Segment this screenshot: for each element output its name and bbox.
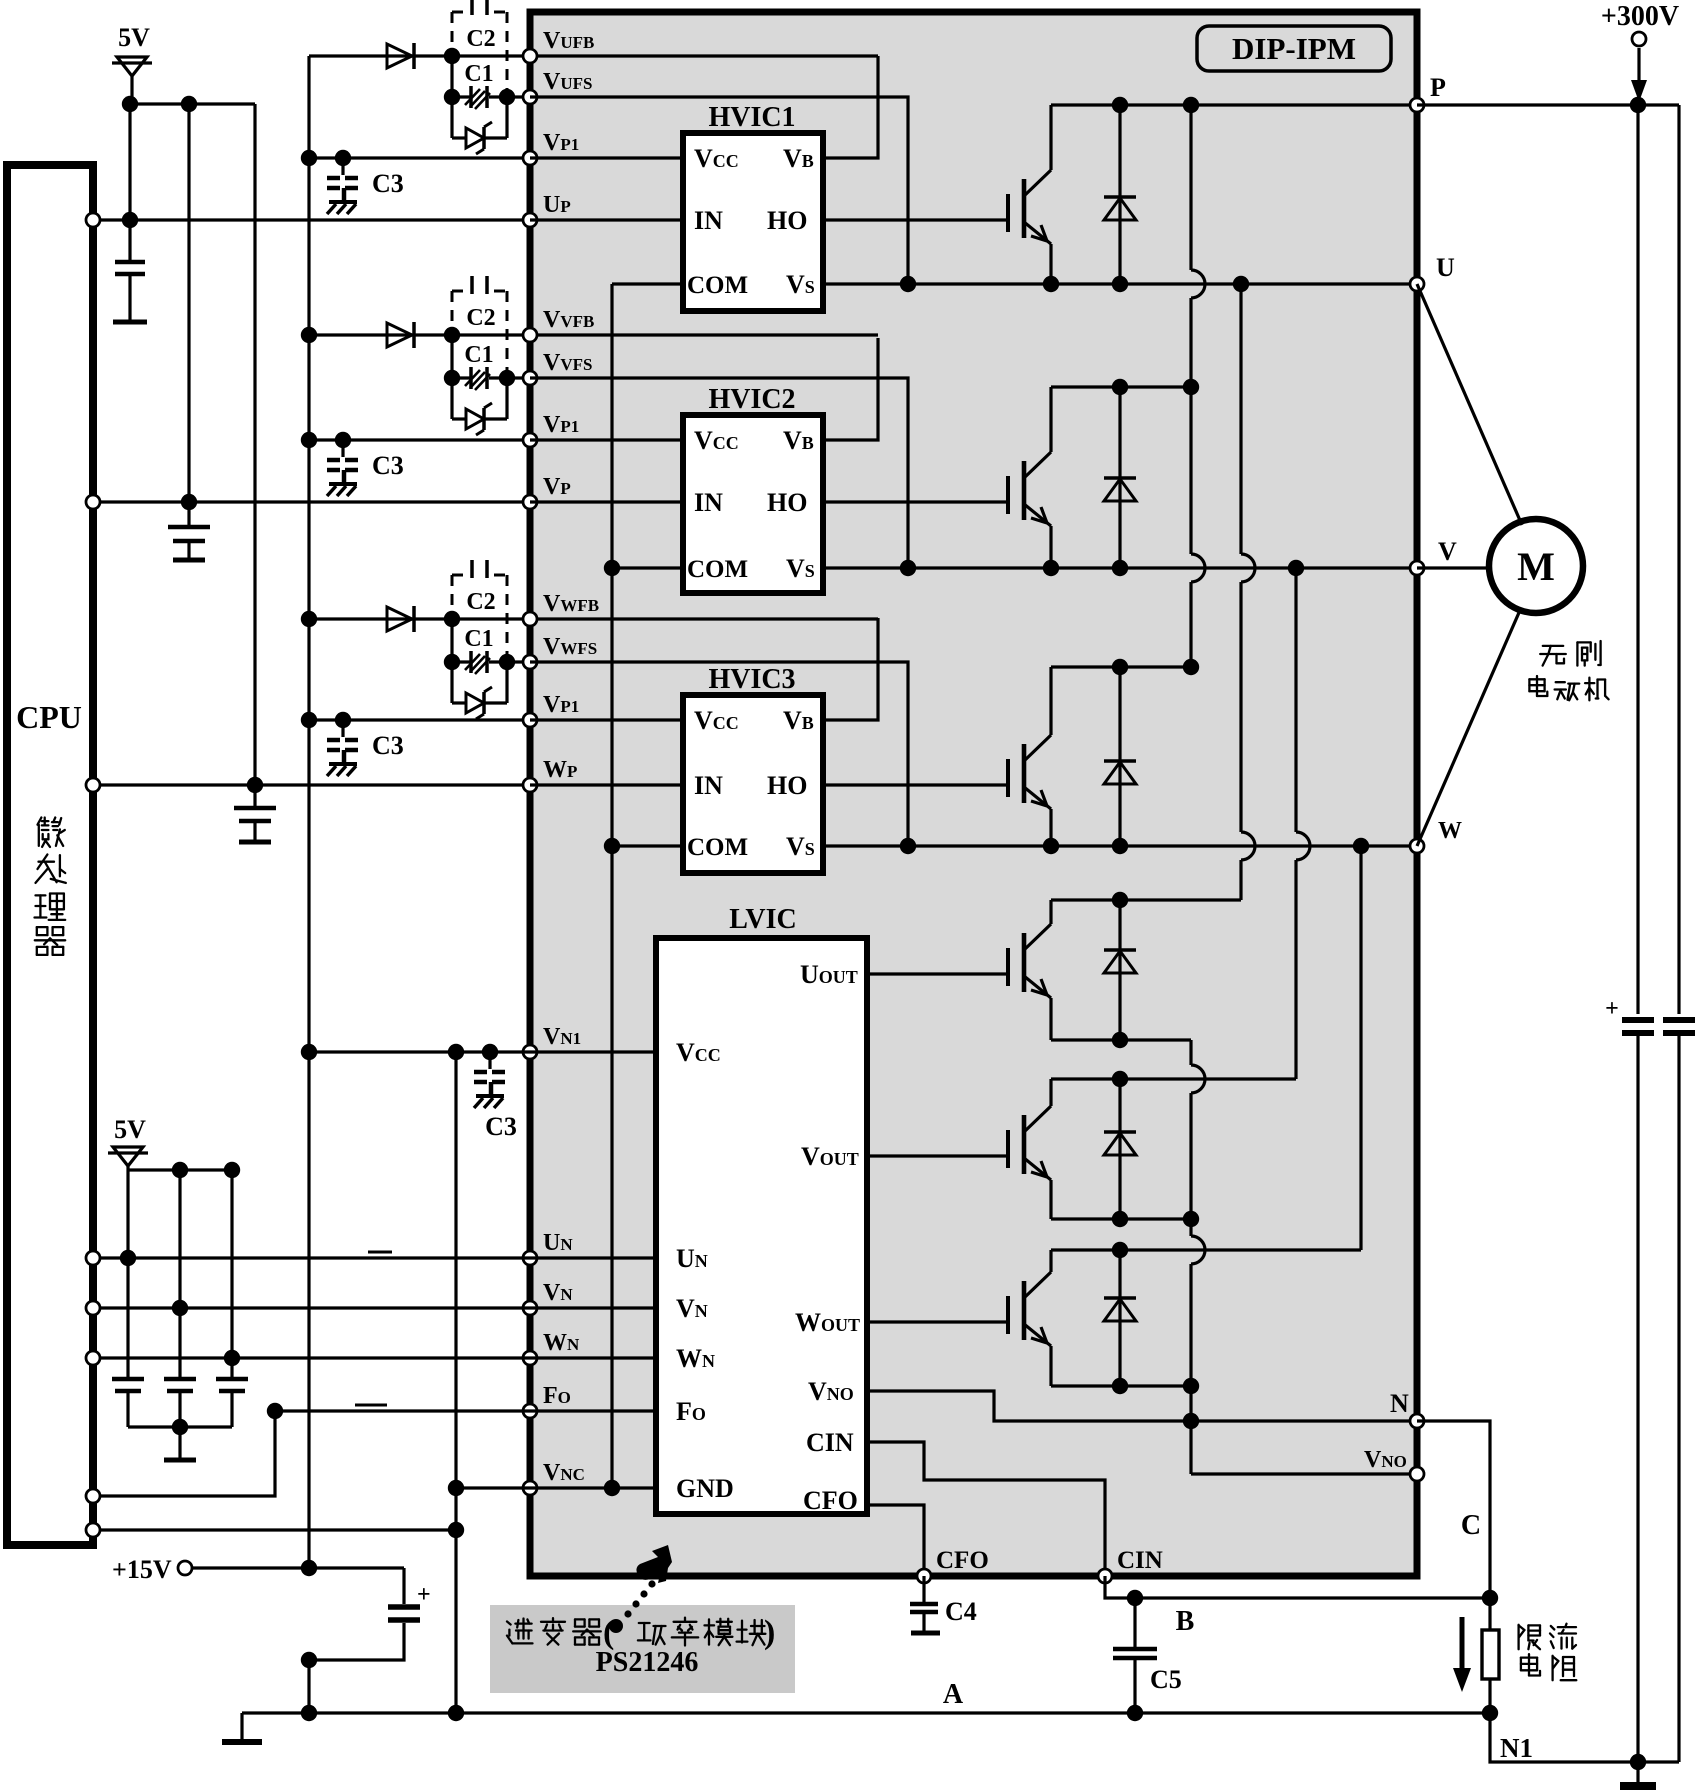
capacitor on WP line to ground [253, 785, 256, 808]
wire WN line [93, 1356, 656, 1359]
module pin N [1410, 1414, 1424, 1428]
svg-text:C5: C5 [1150, 1665, 1182, 1694]
wire x128 to UN [126, 1170, 129, 1379]
wire UOUT to Q4 gate [867, 972, 1008, 975]
wire V low collector rail [1051, 1077, 1296, 1080]
wire COM of HVIC2 [612, 566, 683, 569]
svg-text:DIP-IPM: DIP-IPM [1232, 31, 1356, 66]
capacitor C3 to ground (phase U) [341, 158, 344, 175]
wire VP CPU to module [93, 500, 530, 503]
svg-text:COM: COM [687, 272, 748, 299]
svg-text:N: N [1390, 1389, 1409, 1418]
wire W riser to W low collector [1359, 846, 1362, 1250]
wire N1 bottom link [1490, 1713, 1679, 1762]
CPU pin VP [86, 495, 100, 509]
module pin P [1410, 98, 1424, 112]
module pin UN [523, 1251, 537, 1265]
svg-text:GND: GND [676, 1474, 734, 1503]
junction dot [301, 327, 317, 343]
wire 5V#2 rail [128, 1168, 232, 1171]
wire A ground line [242, 1711, 1490, 1714]
ground (filter caps) [178, 1427, 181, 1460]
wire VVFS to module pin [507, 376, 530, 379]
junction dot [1112, 1211, 1128, 1227]
wire U low collector rail [1051, 898, 1241, 901]
junction dot [444, 89, 460, 105]
junction dot [1183, 659, 1199, 675]
junction dot [444, 370, 460, 386]
label 限流 (current limiting) [1519, 1625, 1540, 1649]
transistor Q2 (V high-side IGBT) [1006, 476, 1010, 514]
junction dot [482, 1044, 498, 1060]
transistor Q5 (V low-side IGBT) [1006, 1130, 1010, 1168]
wire COM of HVIC3 [612, 844, 683, 847]
wire VNO to N row [867, 1391, 1417, 1421]
svg-text:C: C [1461, 1510, 1481, 1541]
capacitor C1 (bootstrap) phase W [452, 660, 470, 663]
wire WOUT to Q6 gate [867, 1320, 1008, 1323]
op-amp/driver U2 HVIC2 box [683, 415, 823, 593]
junction dot [1127, 1590, 1143, 1606]
wire CFO internal route [867, 1505, 924, 1576]
junction dot [1183, 97, 1199, 113]
capacitor input filter [216, 1377, 248, 1382]
svg-text:A: A [943, 1679, 964, 1710]
capacitor C3 to ground (VN1) [488, 1052, 491, 1069]
wire P rail [1051, 103, 1417, 106]
junction dot [1043, 560, 1059, 576]
wire filter cap common [128, 1425, 232, 1428]
svg-text:N1: N1 [1500, 1733, 1533, 1763]
wire COM of HVIC1 [612, 282, 683, 285]
label 电动机 (motor) [1529, 676, 1547, 696]
junction dot [172, 1162, 188, 1178]
junction dot [267, 1403, 283, 1419]
module pin CIN [1098, 1569, 1112, 1583]
capacitor on UP line to ground [128, 220, 131, 262]
wire N to resistor (C branch) [1417, 1421, 1490, 1598]
junction dot [247, 777, 263, 793]
capacitor C4 [922, 1576, 925, 1604]
diode D6 (W low freewheel) [1118, 1250, 1121, 1386]
svg-text:PS21246: PS21246 [596, 1647, 699, 1678]
junction dot [1112, 838, 1128, 854]
wire emitter chain to N/VNO [1189, 1040, 1192, 1065]
CPU pin WN [86, 1351, 100, 1365]
wire B line [1105, 1576, 1490, 1598]
svg-text:HVIC2: HVIC2 [708, 384, 795, 415]
svg-text:C1: C1 [464, 626, 493, 652]
wire VVFB line [309, 333, 878, 336]
junction dot [1183, 379, 1199, 395]
module pin VVFB [523, 328, 537, 342]
junction dot [1353, 838, 1369, 854]
svg-text:COM: COM [687, 834, 748, 861]
wire UN line [93, 1256, 656, 1259]
wire P to +300V and right rail [1417, 103, 1679, 106]
module pin VP1 [523, 713, 537, 727]
module pin VP1 [523, 151, 537, 165]
svg-text:B: B [1176, 1606, 1195, 1637]
junction dot [444, 654, 460, 670]
capacitor C2 (optional, dashed) for phase V [452, 276, 507, 374]
wire VCC into HVIC1 [530, 156, 683, 159]
module pin VN1 [523, 1045, 537, 1059]
wire UP CPU to module [93, 218, 530, 221]
label 无刷 (brushless) [1540, 646, 1566, 666]
junction dot [1288, 560, 1304, 576]
op-amp/driver U1 HVIC1 box [683, 133, 823, 311]
junction dot [335, 150, 351, 166]
label 处 [36, 855, 66, 883]
junction dot [1112, 1071, 1128, 1087]
junction dot [301, 1044, 317, 1060]
svg-text:C2: C2 [466, 305, 495, 331]
arrow current direction [1460, 1617, 1465, 1670]
ground (A line) [240, 1713, 243, 1742]
wire bus x130 5V to UP [128, 104, 131, 220]
junction dot [448, 1705, 464, 1721]
wire IN into HVIC3 [530, 783, 683, 786]
label 电阻 (resistor) [1521, 1654, 1540, 1675]
wire stub (scan mark) [368, 1251, 392, 1254]
junction dot [224, 1350, 240, 1366]
wire VWFS riser to W node [530, 662, 908, 846]
junction dot [1112, 892, 1128, 908]
junction dot [900, 560, 916, 576]
svg-text:HVIC3: HVIC3 [708, 664, 795, 695]
terminal +15V [178, 1561, 192, 1575]
module pin WP [523, 778, 537, 792]
CPU pin VN [86, 1301, 100, 1315]
wire bus x255 5V to WP [253, 104, 256, 785]
module pin VP [523, 495, 537, 509]
svg-text:C3: C3 [372, 451, 404, 480]
CPU pin WP [86, 778, 100, 792]
motor M (brushless) [1489, 519, 1583, 613]
wire HO of HVIC3 to IGBT gate [823, 783, 1008, 786]
junction dot [301, 712, 317, 728]
wire cap return to A [307, 1660, 310, 1713]
junction dot [1112, 1242, 1128, 1258]
wire VN1 to LVIC VCC [309, 1050, 656, 1053]
wire V riser to V low collector [1294, 568, 1297, 832]
transistor Q4 (U low-side IGBT) [1006, 948, 1010, 986]
diode D2 (V high freewheel) [1118, 387, 1121, 568]
wire C1 left leg [450, 56, 453, 97]
junction dot [1112, 560, 1128, 576]
CPU pin UN [86, 1251, 100, 1265]
wire VUP1 line [309, 156, 530, 159]
DIP-IPM title box [1197, 26, 1391, 71]
junction dot [224, 1162, 240, 1178]
junction dot [499, 370, 515, 386]
wire VWFB line [309, 617, 878, 620]
junction dot [499, 654, 515, 670]
module pin VUFS [523, 90, 537, 104]
capacitor input filter [112, 1377, 144, 1382]
module pin WN [523, 1351, 537, 1365]
label 微 (micro) [38, 818, 65, 847]
junction dot [604, 838, 620, 854]
zener diode ZU (protection) [450, 97, 453, 138]
capacitor C1 (bootstrap) phase V [452, 376, 470, 379]
capacitor input filter [164, 1377, 196, 1382]
junction dot [1183, 1413, 1199, 1429]
wire W to motor [1417, 608, 1521, 846]
DIP-IPM module body (gray block) [530, 12, 1417, 1576]
junction dot [1482, 1590, 1498, 1606]
ground (bottom right) [1636, 1762, 1639, 1786]
svg-text:CFO: CFO [803, 1486, 858, 1515]
svg-text:(: ( [603, 1614, 614, 1651]
wire VUFS to module pin [507, 95, 530, 98]
op-amp/driver U3 HVIC3 box [683, 695, 823, 873]
op-amp/driver U4 LVIC box [656, 938, 867, 1514]
diode D1 (U high freewheel) [1118, 105, 1121, 284]
zener diode ZV (protection) [450, 378, 453, 419]
svg-text:+300V: +300V [1601, 1, 1679, 32]
junction dot [1482, 1705, 1498, 1721]
junction dot [900, 838, 916, 854]
wire bus x189 5V to VP [187, 104, 190, 502]
junction dot [172, 1300, 188, 1316]
junction dot [335, 712, 351, 728]
CPU pin UP [86, 213, 100, 227]
svg-text:C3: C3 [372, 169, 404, 198]
junction dot [1112, 379, 1128, 395]
svg-text:W: W [1438, 818, 1462, 844]
svg-text:HO: HO [767, 771, 807, 800]
capacitor C2 (optional, dashed) for phase W [452, 560, 507, 658]
wire +15V bus (vertical) [307, 56, 310, 1568]
wire C1 left leg [450, 335, 453, 378]
capacitor C3 to ground (phase W) [341, 720, 344, 737]
wire VCC into HVIC3 [530, 718, 683, 721]
svg-text:+15V: +15V [112, 1555, 172, 1584]
junction dot [444, 611, 460, 627]
junction dot [444, 327, 460, 343]
module pin UP [523, 213, 537, 227]
wire IN into HVIC1 [530, 218, 683, 221]
bootstrap diode DU on VUFB line [387, 44, 412, 68]
wire 5V rail [130, 102, 255, 105]
svg-text:): ) [764, 1614, 775, 1651]
junction dot [1112, 97, 1128, 113]
wire V collector rail [1051, 385, 1191, 388]
svg-text:C2: C2 [466, 589, 495, 615]
wire IN into HVIC2 [530, 500, 683, 503]
zener diode ZW (protection) [450, 662, 453, 703]
wire P riser to V/W collector rails [1189, 105, 1192, 270]
svg-text:U: U [1436, 253, 1455, 282]
junction dot [604, 560, 620, 576]
junction dot [1630, 1754, 1646, 1770]
junction dot [1112, 276, 1128, 292]
svg-text:+: + [1605, 996, 1619, 1022]
diode D3 (W high freewheel) [1118, 667, 1121, 846]
wire WP CPU to module [93, 783, 530, 786]
CPU (microprocessor) block [7, 165, 93, 1545]
junction dot [1127, 1705, 1143, 1721]
svg-text:IN: IN [694, 488, 723, 517]
wire C1 left leg [450, 619, 453, 662]
arrow +300V [1637, 48, 1640, 82]
svg-text:HVIC1: HVIC1 [708, 102, 795, 133]
wire VB of HVIC3 [823, 618, 878, 720]
wire ground riser x456 [454, 1052, 457, 1713]
junction dot [1112, 659, 1128, 675]
wire U low emitter rail [1051, 1038, 1191, 1041]
wire VB of HVIC1 [823, 56, 878, 158]
svg-text:5V: 5V [114, 1115, 146, 1144]
svg-text:C3: C3 [372, 731, 404, 760]
svg-text:C1: C1 [464, 61, 493, 87]
wire right outer rail [1677, 105, 1680, 1014]
junction dot [1112, 1378, 1128, 1394]
module pin CFO [917, 1569, 931, 1583]
svg-text:CIN: CIN [806, 1428, 854, 1457]
module pin U [1410, 277, 1424, 291]
module pin V [1410, 561, 1424, 575]
module pin FO [523, 1404, 537, 1418]
capacitor C2 (optional, dashed) for phase U [452, 0, 507, 93]
wire VNC/GND line [456, 1486, 656, 1489]
junction dot [1233, 276, 1249, 292]
module pin VNO [1410, 1467, 1424, 1481]
wire W low collector rail [1051, 1248, 1361, 1251]
wire Fo riser from CPU [93, 1411, 275, 1496]
diode D5 (V low freewheel) [1118, 1079, 1121, 1219]
cursor pointer (callout) [636, 1545, 672, 1583]
svg-text:IN: IN [694, 206, 723, 235]
transistor Q6 (W low-side IGBT) [1006, 1296, 1010, 1334]
wire VN line [93, 1306, 656, 1309]
label 器 [35, 927, 65, 955]
module pin VWFB [523, 612, 537, 626]
transistor Q3 (W high-side IGBT) [1006, 759, 1010, 797]
junction dot [1043, 276, 1059, 292]
junction dot [172, 1419, 188, 1435]
wire W node row [823, 844, 1417, 847]
wire VUFB line [309, 54, 878, 57]
junction dot [1183, 1211, 1199, 1227]
module pin VUFB [523, 49, 537, 63]
wire VCC into HVIC2 [530, 438, 683, 441]
junction dot [122, 212, 138, 228]
junction dot [335, 432, 351, 448]
junction dot [301, 150, 317, 166]
wire VWP1 line [309, 718, 530, 721]
wire VVP1 line [309, 438, 530, 441]
wire HO of HVIC1 to IGBT gate [823, 218, 1008, 221]
svg-text:M: M [1517, 544, 1555, 589]
CPU pin Fo [86, 1489, 100, 1503]
svg-text:C3: C3 [485, 1112, 517, 1141]
junction dot [301, 1560, 317, 1576]
wire V low emitter rail [1051, 1217, 1191, 1220]
capacitor on VP line to ground [187, 502, 190, 527]
wire VOUT to Q5 gate [867, 1154, 1008, 1157]
svg-text:5V: 5V [118, 23, 150, 52]
module pin VWFS [523, 655, 537, 669]
resistor R1 (current limiting) [1488, 1598, 1491, 1630]
wire U riser to U low collector [1239, 284, 1242, 554]
junction dot [499, 89, 515, 105]
junction dot [448, 1522, 464, 1538]
junction dot [301, 1652, 317, 1668]
junction dot [301, 611, 317, 627]
junction dot [181, 96, 197, 112]
wire U to motor [1417, 284, 1522, 525]
svg-text:HO: HO [767, 488, 807, 517]
wire stub (scan mark) [355, 1404, 387, 1407]
bootstrap diode DV on VVFB line [387, 323, 412, 347]
terminal +300V [1632, 32, 1646, 46]
transistor Q1 (U high-side IGBT) [1006, 194, 1010, 232]
wire CPU ground line [93, 1528, 456, 1531]
junction dot [1630, 97, 1646, 113]
junction dot [448, 1044, 464, 1060]
svg-text:HO: HO [767, 206, 807, 235]
wire Fo line [275, 1409, 656, 1412]
wire W collector rail [1051, 665, 1191, 668]
capacitor C3 to ground (phase V) [341, 440, 344, 457]
junction dot [604, 1480, 620, 1496]
wire CIN internal route [867, 1442, 1105, 1576]
junction dot [181, 494, 197, 510]
wire U node row [823, 282, 1417, 285]
svg-text:C1: C1 [464, 342, 493, 368]
capacitor electrolytic +15V [402, 1568, 405, 1604]
label 理 [35, 894, 66, 920]
module pin VVFS [523, 371, 537, 385]
junction dot [120, 1250, 136, 1266]
wire +15V feed [185, 1566, 404, 1569]
label box 逆变器(功率模块) PS21246 [490, 1605, 795, 1693]
wire V node row [823, 566, 1417, 569]
wire VUFS riser to U node [530, 97, 908, 284]
capacitor C5 [1133, 1598, 1136, 1649]
wire W low emitter rail [1051, 1384, 1191, 1387]
junction dot [900, 276, 916, 292]
wire +300V down rail [1636, 105, 1639, 1014]
junction dot [122, 96, 138, 112]
capacitor C1 (bootstrap) phase U [452, 95, 470, 98]
svg-text:P: P [1430, 73, 1446, 102]
module pin W [1410, 839, 1424, 853]
label 逆变器（功率模块） [507, 1619, 533, 1644]
svg-text:V: V [1438, 537, 1457, 566]
junction dot [444, 48, 460, 64]
svg-text:C4: C4 [945, 1597, 977, 1626]
wire HO of HVIC2 to IGBT gate [823, 500, 1008, 503]
svg-text:+: + [417, 1582, 431, 1608]
wire VB of HVIC2 [823, 338, 878, 440]
junction dot [1112, 1032, 1128, 1048]
svg-text:IN: IN [694, 771, 723, 800]
junction dot [301, 1705, 317, 1721]
wire VWFS to module pin [507, 660, 530, 663]
svg-text:CPU: CPU [16, 699, 82, 735]
svg-text:LVIC: LVIC [729, 904, 796, 935]
CPU pin GND [86, 1523, 100, 1537]
capacitor bulk C6 (+300V) [1622, 1017, 1654, 1023]
junction dot [301, 432, 317, 448]
junction dot [448, 1480, 464, 1496]
svg-text:COM: COM [687, 556, 748, 583]
module pin VNC [523, 1481, 537, 1495]
